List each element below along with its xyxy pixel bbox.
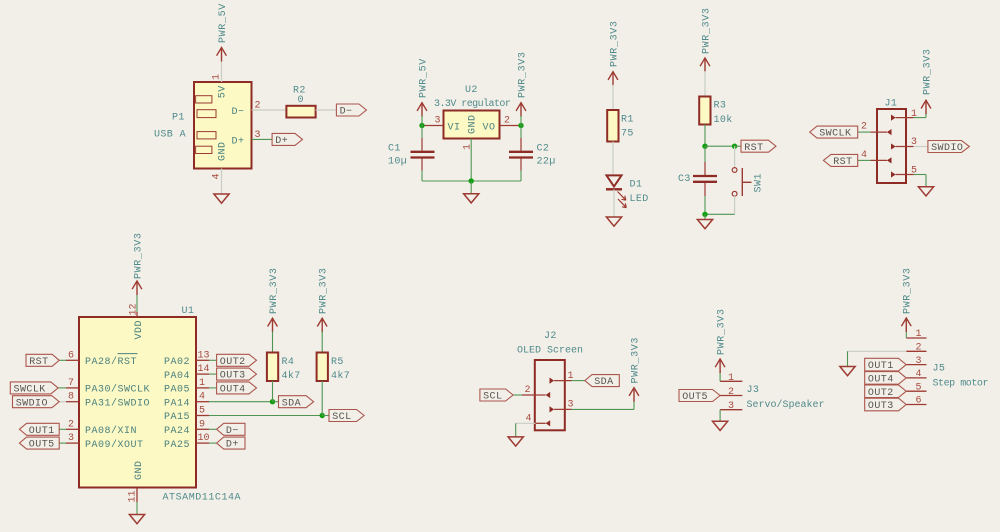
U1 pin 2 lead — [66, 428, 79, 430]
wire RST label to U1 pin6 — [59, 359, 66, 361]
svg-text:OUT4: OUT4 — [868, 375, 894, 386]
J5 pin1 lead — [906, 337, 926, 339]
node gnd junction — [702, 212, 707, 217]
wire SW1 top lead — [734, 146, 736, 168]
U2 pin VI lead — [422, 125, 444, 127]
svg-text:SWDIO: SWDIO — [16, 398, 48, 409]
svg-text:10µ: 10µ — [388, 157, 407, 168]
wire J2 pin1 to SDA label — [572, 380, 585, 382]
svg-text:R5: R5 — [331, 357, 344, 368]
svg-text:SDA: SDA — [282, 398, 301, 409]
svg-text:5: 5 — [916, 382, 922, 393]
svg-text:USB A: USB A — [154, 130, 186, 141]
svg-text:D+: D+ — [275, 136, 288, 147]
net label OUT4 (J5) — [865, 372, 907, 385]
net label OUT1 (J5) — [865, 358, 907, 371]
svg-text:J5: J5 — [933, 364, 946, 375]
svg-text:OUT2: OUT2 — [220, 357, 246, 368]
wire U1 pin14 to OUT3 label — [209, 373, 217, 375]
node VOUT junction — [518, 123, 523, 128]
net label D- — [336, 104, 366, 116]
svg-text:OLED Screen: OLED Screen — [517, 346, 583, 357]
wire J1 pin3 to SWDIO label — [914, 146, 928, 148]
net label RST — [741, 140, 776, 152]
ground — [464, 194, 479, 203]
J1 pin5 arrow — [891, 171, 896, 177]
svg-text:U1: U1 — [182, 306, 195, 317]
ground — [129, 515, 144, 524]
wire SW1 bottom lead — [734, 196, 736, 214]
svg-text:4k7: 4k7 — [331, 370, 350, 382]
net label D- (U1) — [217, 423, 245, 435]
net label OUT2 (J5) — [865, 385, 907, 398]
wire R2 to D- label — [316, 109, 337, 111]
net label RST (U1) — [26, 354, 59, 366]
power symbol PWR_3V3 — [268, 318, 278, 326]
power symbol PWR_3V3 — [715, 359, 725, 367]
node SCL junction — [320, 413, 325, 418]
svg-text:SWCLK: SWCLK — [14, 385, 46, 396]
svg-text:PA15: PA15 — [164, 412, 190, 423]
wire P1 pin1 to PWR_5V — [221, 60, 223, 82]
svg-text:1: 1 — [463, 144, 474, 150]
USB A inner contact rect 4 — [196, 146, 212, 153]
svg-text:PWR_3V3: PWR_3V3 — [609, 20, 620, 67]
ground — [840, 367, 855, 376]
svg-text:4: 4 — [916, 369, 922, 380]
svg-text:5: 5 — [199, 406, 205, 417]
svg-text:2: 2 — [525, 385, 531, 396]
svg-text:RST: RST — [29, 357, 48, 368]
svg-text:3.3V regulator: 3.3V regulator — [434, 98, 511, 110]
resistor R1 — [607, 110, 618, 142]
svg-text:8: 8 — [68, 392, 74, 403]
node SDA junction — [270, 399, 275, 404]
svg-text:1: 1 — [916, 329, 922, 340]
wire GND pin to ground — [136, 502, 138, 515]
svg-text:P1: P1 — [172, 113, 185, 124]
U1 pin 3 lead — [66, 442, 79, 444]
svg-text:GND: GND — [134, 460, 145, 480]
wire J2 pin4 to ground — [516, 422, 536, 424]
svg-text:6: 6 — [916, 396, 922, 407]
J3 pin1 lead — [720, 380, 742, 382]
svg-text:R3: R3 — [714, 101, 727, 112]
net label SWCLK (U1) — [10, 382, 58, 394]
node RST junction 2 — [732, 144, 737, 149]
svg-text:PA25: PA25 — [164, 440, 190, 451]
J5 pin6 lead — [906, 404, 926, 406]
svg-text:10k: 10k — [714, 114, 733, 126]
LED D1 — [607, 175, 622, 186]
power symbol PWR_3V3 — [608, 72, 618, 80]
svg-text:SCL: SCL — [332, 412, 351, 423]
svg-text:SCL: SCL — [483, 392, 502, 403]
J1 pin2 arrow — [887, 129, 892, 135]
J2 pin1 arrow — [550, 378, 555, 384]
wire U1 pin13 to OUT2 label — [209, 359, 217, 361]
resistor R2 — [286, 106, 315, 118]
wire D1 to ground — [613, 189, 615, 217]
U1 pin 9 lead — [196, 428, 209, 430]
J5 pin4 lead — [906, 377, 926, 379]
svg-text:D−: D− — [340, 107, 353, 118]
wire PWR_3V3 to R1 — [612, 85, 614, 110]
svg-text:1: 1 — [911, 109, 917, 120]
svg-text:6: 6 — [68, 350, 74, 361]
J3 pin3 lead — [720, 409, 742, 411]
net label SWDIO (U1) — [13, 396, 60, 408]
net label RST (J1) — [823, 154, 857, 166]
svg-text:PWR_5V: PWR_5V — [218, 3, 229, 43]
svg-text:C3: C3 — [678, 174, 691, 185]
wire PWR_3V3 to R4 — [272, 331, 274, 352]
svg-text:VDD: VDD — [134, 320, 145, 340]
wire SCL label to J2 pin2 — [513, 394, 522, 396]
wire PWR_5V to VIN node — [421, 116, 423, 126]
svg-text:2: 2 — [861, 122, 867, 133]
wire gnd rail — [422, 180, 521, 182]
power symbol PWR_3V3 — [901, 318, 911, 326]
svg-text:PWR_3V3: PWR_3V3 — [319, 267, 330, 314]
U1 PA28/RST overline — [118, 353, 138, 355]
wire R1 to D1 — [612, 142, 614, 176]
ground — [713, 421, 728, 430]
J1 pin1 arrow — [891, 115, 896, 121]
ground — [918, 187, 933, 196]
svg-text:D−: D− — [232, 107, 245, 118]
J2 pin2 lead — [522, 394, 546, 396]
svg-text:SDA: SDA — [594, 377, 613, 388]
wire OUT1 label to U1 pin2 — [59, 428, 66, 430]
svg-text:OUT5: OUT5 — [29, 440, 55, 451]
ground — [508, 437, 523, 446]
wire U1 pin10 to D+ label — [209, 442, 217, 444]
svg-text:Step motor: Step motor — [933, 378, 989, 389]
svg-text:PA24: PA24 — [164, 426, 190, 437]
J1 pin1 lead — [896, 117, 914, 119]
svg-text:U2: U2 — [465, 85, 478, 96]
svg-text:1: 1 — [212, 74, 223, 80]
svg-text:OUT1: OUT1 — [29, 426, 55, 437]
wire SWDIO label to U1 pin8 — [59, 401, 66, 403]
switch SW1 bottom contact — [732, 191, 737, 196]
svg-text:PA04: PA04 — [164, 371, 190, 382]
J2 pin4 lead — [536, 422, 546, 424]
resistor R4 — [267, 353, 278, 382]
svg-text:12: 12 — [129, 303, 140, 315]
svg-text:75: 75 — [621, 129, 634, 140]
svg-text:OUT5: OUT5 — [682, 392, 708, 403]
svg-text:GND: GND — [218, 141, 229, 161]
svg-text:PA09/XOUT: PA09/XOUT — [85, 439, 144, 451]
wire rail to ground symbol — [470, 181, 472, 194]
wire SCL node to label — [322, 415, 329, 417]
U1 pin 14 lead — [196, 373, 209, 375]
U1 GND pin lead — [136, 488, 138, 503]
svg-text:PA30/SWCLK: PA30/SWCLK — [85, 384, 150, 396]
wire PWR_3V3 to R3 — [704, 71, 706, 97]
power symbol PWR_3V3 — [516, 103, 526, 111]
net label SDA (J2) — [585, 375, 620, 387]
net label OUT3 — [217, 368, 257, 380]
USB A inner contact rect 2 — [197, 110, 216, 118]
wire RST node to SW1 node — [705, 145, 735, 147]
wire VOUT node to C2 — [520, 126, 522, 139]
wire PWR_3V3 to VOUT node — [520, 116, 522, 126]
U1 pin 8 lead — [66, 401, 79, 403]
svg-text:D+: D+ — [232, 137, 245, 148]
J5 pin5 lead — [906, 390, 926, 392]
wire J3 pin1 to PWR_3V3 — [719, 370, 721, 381]
power symbol PWR_3V3 — [700, 58, 710, 66]
svg-text:ATSAMD11C14A: ATSAMD11C14A — [163, 493, 242, 504]
svg-text:D1: D1 — [630, 180, 643, 191]
wire VIN node to C1 — [421, 126, 423, 139]
wire R5 to SCL node — [321, 381, 323, 416]
J2 pin3 lead — [554, 408, 571, 410]
capacitor C1 — [411, 151, 435, 153]
svg-text:11: 11 — [128, 490, 139, 502]
wire P1 pin3 to D+ label — [252, 138, 272, 140]
svg-text:PWR_3V3: PWR_3V3 — [269, 267, 280, 314]
switch SW1 top contact — [732, 168, 737, 173]
svg-text:J3: J3 — [747, 385, 760, 396]
wire J1 pin2 to SWCLK label — [858, 131, 871, 133]
svg-text:R1: R1 — [621, 115, 634, 126]
power symbol PWR_5V — [417, 103, 427, 111]
wire P1 pin4 to ground — [221, 169, 223, 195]
connector P1 USB A body — [194, 82, 252, 169]
svg-text:D−: D− — [226, 426, 239, 437]
J1 pin5 lead — [896, 174, 914, 176]
svg-text:PWR_5V: PWR_5V — [418, 58, 429, 98]
net label D+ (U1) — [217, 437, 245, 449]
svg-text:9: 9 — [199, 419, 205, 430]
svg-text:4k7: 4k7 — [282, 370, 301, 382]
svg-text:D+: D+ — [226, 440, 239, 451]
wire PWR_3V3 to R5 — [321, 331, 323, 352]
D1 emission arrow 2 — [618, 199, 626, 208]
net label OUT3 (J5) — [865, 398, 907, 411]
regulator U2 body — [444, 111, 500, 139]
wire SWCLK label to U1 pin7 — [58, 387, 66, 389]
wire P1 pin2 to R2 — [252, 109, 287, 111]
node RST junction 1 — [702, 144, 707, 149]
wire SDA node to label — [273, 401, 279, 403]
svg-text:14: 14 — [198, 364, 210, 375]
net label OUT4 — [217, 382, 257, 394]
svg-text:PWR_3V3: PWR_3V3 — [630, 337, 641, 384]
node gnd rail junction — [469, 178, 474, 183]
svg-text:RST: RST — [833, 157, 852, 168]
wire RST node to C3 — [704, 146, 706, 162]
svg-text:2: 2 — [728, 387, 734, 398]
J1 pin4 arrow — [887, 157, 892, 163]
J1 pin4 lead — [871, 159, 888, 161]
svg-text:5V: 5V — [218, 85, 229, 98]
svg-text:3: 3 — [68, 433, 74, 444]
wire J5 pin1 to PWR_3V3 — [905, 328, 907, 338]
net label D+ — [272, 133, 302, 145]
wire J1 pin1 to PWR_3V3 — [914, 117, 927, 119]
connector J2 body — [535, 360, 565, 430]
J2 pin2 arrow — [546, 392, 551, 398]
svg-text:SWDIO: SWDIO — [931, 143, 963, 154]
svg-text:PWR_3V3: PWR_3V3 — [903, 267, 914, 314]
svg-text:1: 1 — [199, 378, 205, 389]
U1 pin 7 lead — [66, 387, 79, 389]
svg-text:PWR_3V3: PWR_3V3 — [922, 48, 933, 95]
svg-text:VO: VO — [483, 123, 496, 134]
svg-text:PA14: PA14 — [164, 398, 190, 409]
USB A inner contact rect 3 — [197, 132, 216, 139]
node VIN junction — [419, 123, 424, 128]
wire to RST label — [735, 145, 741, 147]
svg-text:0: 0 — [298, 95, 304, 106]
ground — [214, 194, 229, 203]
IC U1 body — [79, 317, 196, 488]
wire R3 to RST node — [704, 125, 706, 147]
capacitor C3 — [693, 175, 717, 177]
wire J1 pin5 to ground — [914, 174, 927, 176]
svg-text:VI: VI — [448, 123, 461, 134]
net label OUT2 — [217, 354, 257, 366]
svg-text:OUT3: OUT3 — [220, 371, 246, 382]
wire R4 to SDA node — [272, 381, 274, 402]
wire U2 GND pin to rail — [470, 139, 472, 182]
svg-text:4: 4 — [199, 392, 205, 403]
svg-text:PA02: PA02 — [164, 357, 190, 368]
wire J3 pin3 to ground — [719, 410, 721, 422]
svg-text:PWR_3V3: PWR_3V3 — [517, 51, 528, 98]
net label SWDIO (J1) — [928, 141, 970, 153]
power symbol PWR_3V3 — [132, 281, 142, 289]
svg-text:7: 7 — [68, 378, 74, 389]
svg-text:4: 4 — [861, 150, 867, 161]
svg-text:OUT4: OUT4 — [220, 385, 246, 396]
J5 pin2 lead — [906, 350, 926, 352]
ground — [606, 217, 621, 226]
net label SCL (J2) — [480, 389, 513, 401]
switch SW1 actuator — [741, 168, 743, 196]
svg-text:3: 3 — [728, 401, 734, 412]
wire U1 pin5 to SCL node — [209, 415, 322, 417]
J2 pin3 arrow — [550, 406, 555, 412]
svg-text:C2: C2 — [537, 144, 550, 155]
svg-text:3: 3 — [916, 356, 922, 367]
svg-text:J2: J2 — [544, 331, 557, 342]
wire J1 pin4 to RST label — [858, 159, 871, 161]
svg-text:22µ: 22µ — [537, 157, 556, 168]
J2 pin1 lead — [554, 380, 571, 382]
svg-text:SW1: SW1 — [754, 173, 765, 193]
svg-text:OUT3: OUT3 — [868, 401, 894, 412]
net label SDA (U1) — [279, 396, 314, 408]
net label OUT1 (U1) — [19, 423, 59, 435]
power symbol PWR_3V3 — [921, 100, 931, 108]
svg-text:LED: LED — [630, 194, 649, 205]
svg-text:2: 2 — [68, 419, 74, 430]
svg-text:PA31/SWDIO: PA31/SWDIO — [85, 397, 150, 409]
wire C1 to gnd rail — [421, 159, 423, 171]
svg-text:10: 10 — [198, 433, 210, 444]
svg-text:PA28/RST: PA28/RST — [85, 356, 137, 368]
wire U1 pin1 to OUT4 label — [209, 387, 217, 389]
net label SWCLK (J1) — [810, 126, 858, 138]
wire U1 pin4 to SDA node — [209, 401, 273, 403]
wire gnd node to ground — [704, 214, 706, 219]
power symbol PWR_3V3 — [317, 318, 327, 326]
J1 pin3 arrow — [891, 143, 896, 149]
svg-text:2: 2 — [916, 343, 922, 354]
wire SW1 to gnd node — [705, 213, 735, 215]
power symbol PWR_5V — [217, 48, 227, 56]
wire OUT5 label to U1 pin3 — [59, 442, 66, 444]
J5 pin3 lead — [906, 364, 926, 366]
svg-text:GND: GND — [468, 114, 479, 134]
svg-text:OUT1: OUT1 — [868, 361, 894, 372]
svg-text:C1: C1 — [388, 144, 401, 155]
U1 pin 5 lead — [196, 415, 209, 417]
resistor R5 — [317, 353, 328, 382]
svg-text:PWR_3V3: PWR_3V3 — [133, 232, 144, 279]
U1 pin 10 lead — [196, 442, 209, 444]
svg-text:RST: RST — [744, 143, 763, 154]
svg-text:Servo/Speaker: Servo/Speaker — [747, 399, 825, 411]
ground — [697, 220, 712, 229]
net label OUT5 (U1) — [19, 437, 59, 449]
U1 VDD pin lead — [136, 312, 138, 317]
svg-text:PA05: PA05 — [164, 385, 190, 396]
U1 pin 13 lead — [196, 359, 209, 361]
svg-text:PWR_3V3: PWR_3V3 — [701, 7, 712, 54]
J1 pin3 lead — [896, 146, 914, 148]
svg-text:13: 13 — [198, 350, 210, 361]
svg-text:R4: R4 — [282, 357, 295, 368]
resistor R3 — [699, 97, 710, 125]
J2 pin4 arrow — [546, 420, 551, 426]
wire J5 pin2 to ground — [848, 350, 907, 352]
svg-text:SWCLK: SWCLK — [819, 129, 851, 140]
U1 pin 6 lead — [66, 359, 79, 361]
net label OUT5 (J3) — [679, 390, 720, 402]
U2 pin VO lead — [500, 125, 522, 127]
wire C3 to gnd node — [704, 183, 706, 196]
svg-text:1: 1 — [728, 373, 734, 384]
U1 pin 4 lead — [196, 401, 209, 403]
svg-text:OUT2: OUT2 — [868, 388, 894, 399]
svg-text:PWR_3V3: PWR_3V3 — [716, 308, 727, 355]
D1 emission arrow 1 — [618, 192, 626, 201]
wire U1 pin9 to D- label — [209, 428, 217, 430]
connector J1 body — [877, 109, 906, 183]
capacitor C2 — [509, 151, 533, 153]
J1 pin2 lead — [871, 131, 888, 133]
svg-text:4: 4 — [212, 173, 223, 179]
wire VDD to PWR_3V3 — [136, 295, 138, 312]
U1 pin 1 lead — [196, 387, 209, 389]
wire C2 to gnd rail — [520, 159, 522, 171]
J3 pin2 lead — [720, 395, 742, 397]
net label SCL (U1) — [329, 410, 364, 422]
power symbol PWR_3V3 — [629, 388, 639, 396]
svg-text:PA08/XIN: PA08/XIN — [85, 425, 137, 437]
svg-text:J1: J1 — [885, 99, 898, 110]
USB A inner contact rect 1 — [196, 96, 212, 103]
wire J2 pin3 to PWR_3V3 — [572, 408, 635, 410]
